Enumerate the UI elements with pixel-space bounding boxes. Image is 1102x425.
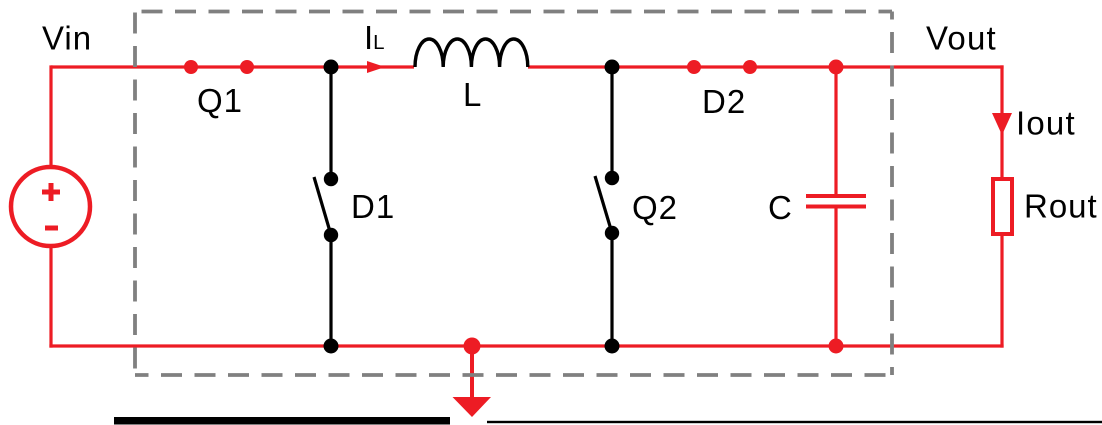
svg-text:D1: D1 bbox=[351, 188, 395, 225]
switch Q2 bottom contact dot bbox=[605, 226, 619, 240]
underline line thin right bbox=[487, 421, 1102, 423]
node dot C bottom bbox=[829, 339, 844, 354]
node dot Q1 right bbox=[240, 60, 254, 74]
node dot D1 top junction bbox=[324, 60, 339, 75]
svg-text:C: C bbox=[768, 189, 792, 226]
capacitor C top lead bbox=[834, 67, 837, 196]
dashed converter boundary box bbox=[135, 12, 892, 376]
ground triangle bbox=[453, 397, 492, 417]
inductor L coil bbox=[415, 39, 528, 67]
node dot D2 left bbox=[687, 60, 701, 74]
svg-text:D2: D2 bbox=[702, 83, 746, 120]
node dot Q1 left bbox=[184, 60, 198, 74]
switch D1 bottom contact dot bbox=[324, 228, 338, 242]
capacitor C bottom lead bbox=[834, 207, 837, 347]
switch D1 bottom lead bbox=[329, 235, 332, 346]
switch D1 top contact dot bbox=[324, 172, 338, 186]
capacitor C bottom plate bbox=[806, 205, 866, 209]
wire: left vertical above source bbox=[49, 65, 52, 167]
switch D1 blade bbox=[314, 177, 331, 235]
wire: left vertical below source bbox=[49, 247, 52, 348]
svg-text:Vout: Vout bbox=[926, 20, 997, 57]
node dot D2 right bbox=[743, 60, 757, 74]
node dot D1 bottom junction bbox=[324, 339, 339, 354]
wire: bottom horizontal bbox=[49, 344, 1003, 347]
switch Q2 top contact dot bbox=[605, 171, 619, 185]
node dot ground junction bbox=[464, 338, 481, 355]
node dot Q2 top junction bbox=[605, 60, 620, 75]
node dot C top bbox=[829, 60, 844, 75]
switch Q2 bottom lead bbox=[610, 233, 613, 346]
node dot Q2 bottom junction bbox=[605, 339, 620, 354]
switch Q2 top lead bbox=[610, 67, 613, 178]
svg-text:Q1: Q1 bbox=[197, 82, 243, 119]
voltage source plus sign bbox=[42, 183, 60, 201]
ground stem bbox=[470, 346, 474, 399]
wire: right vertical above Rout bbox=[1000, 65, 1003, 178]
switch Q2 blade bbox=[595, 176, 612, 233]
wire: top horizontal Vin to inductor bbox=[51, 65, 414, 68]
svg-text:Rout: Rout bbox=[1024, 188, 1098, 225]
svg-text:Vin: Vin bbox=[42, 20, 92, 57]
voltage source V1 circle bbox=[11, 167, 90, 246]
IL current arrow bbox=[367, 61, 385, 73]
wire: top horizontal inductor to right bbox=[528, 65, 1004, 68]
svg-text:Q2: Q2 bbox=[632, 189, 678, 226]
capacitor C top plate bbox=[806, 194, 866, 198]
switch D1 top lead bbox=[329, 67, 332, 179]
underline bar thick left bbox=[114, 417, 450, 425]
wire: right vertical below Rout bbox=[1000, 235, 1003, 348]
svg-text:L: L bbox=[463, 76, 481, 113]
voltage source minus sign bbox=[45, 226, 58, 231]
svg-text:Iout: Iout bbox=[1016, 105, 1076, 142]
Iout current arrow bbox=[992, 113, 1012, 135]
resistor Rout bbox=[993, 179, 1012, 234]
